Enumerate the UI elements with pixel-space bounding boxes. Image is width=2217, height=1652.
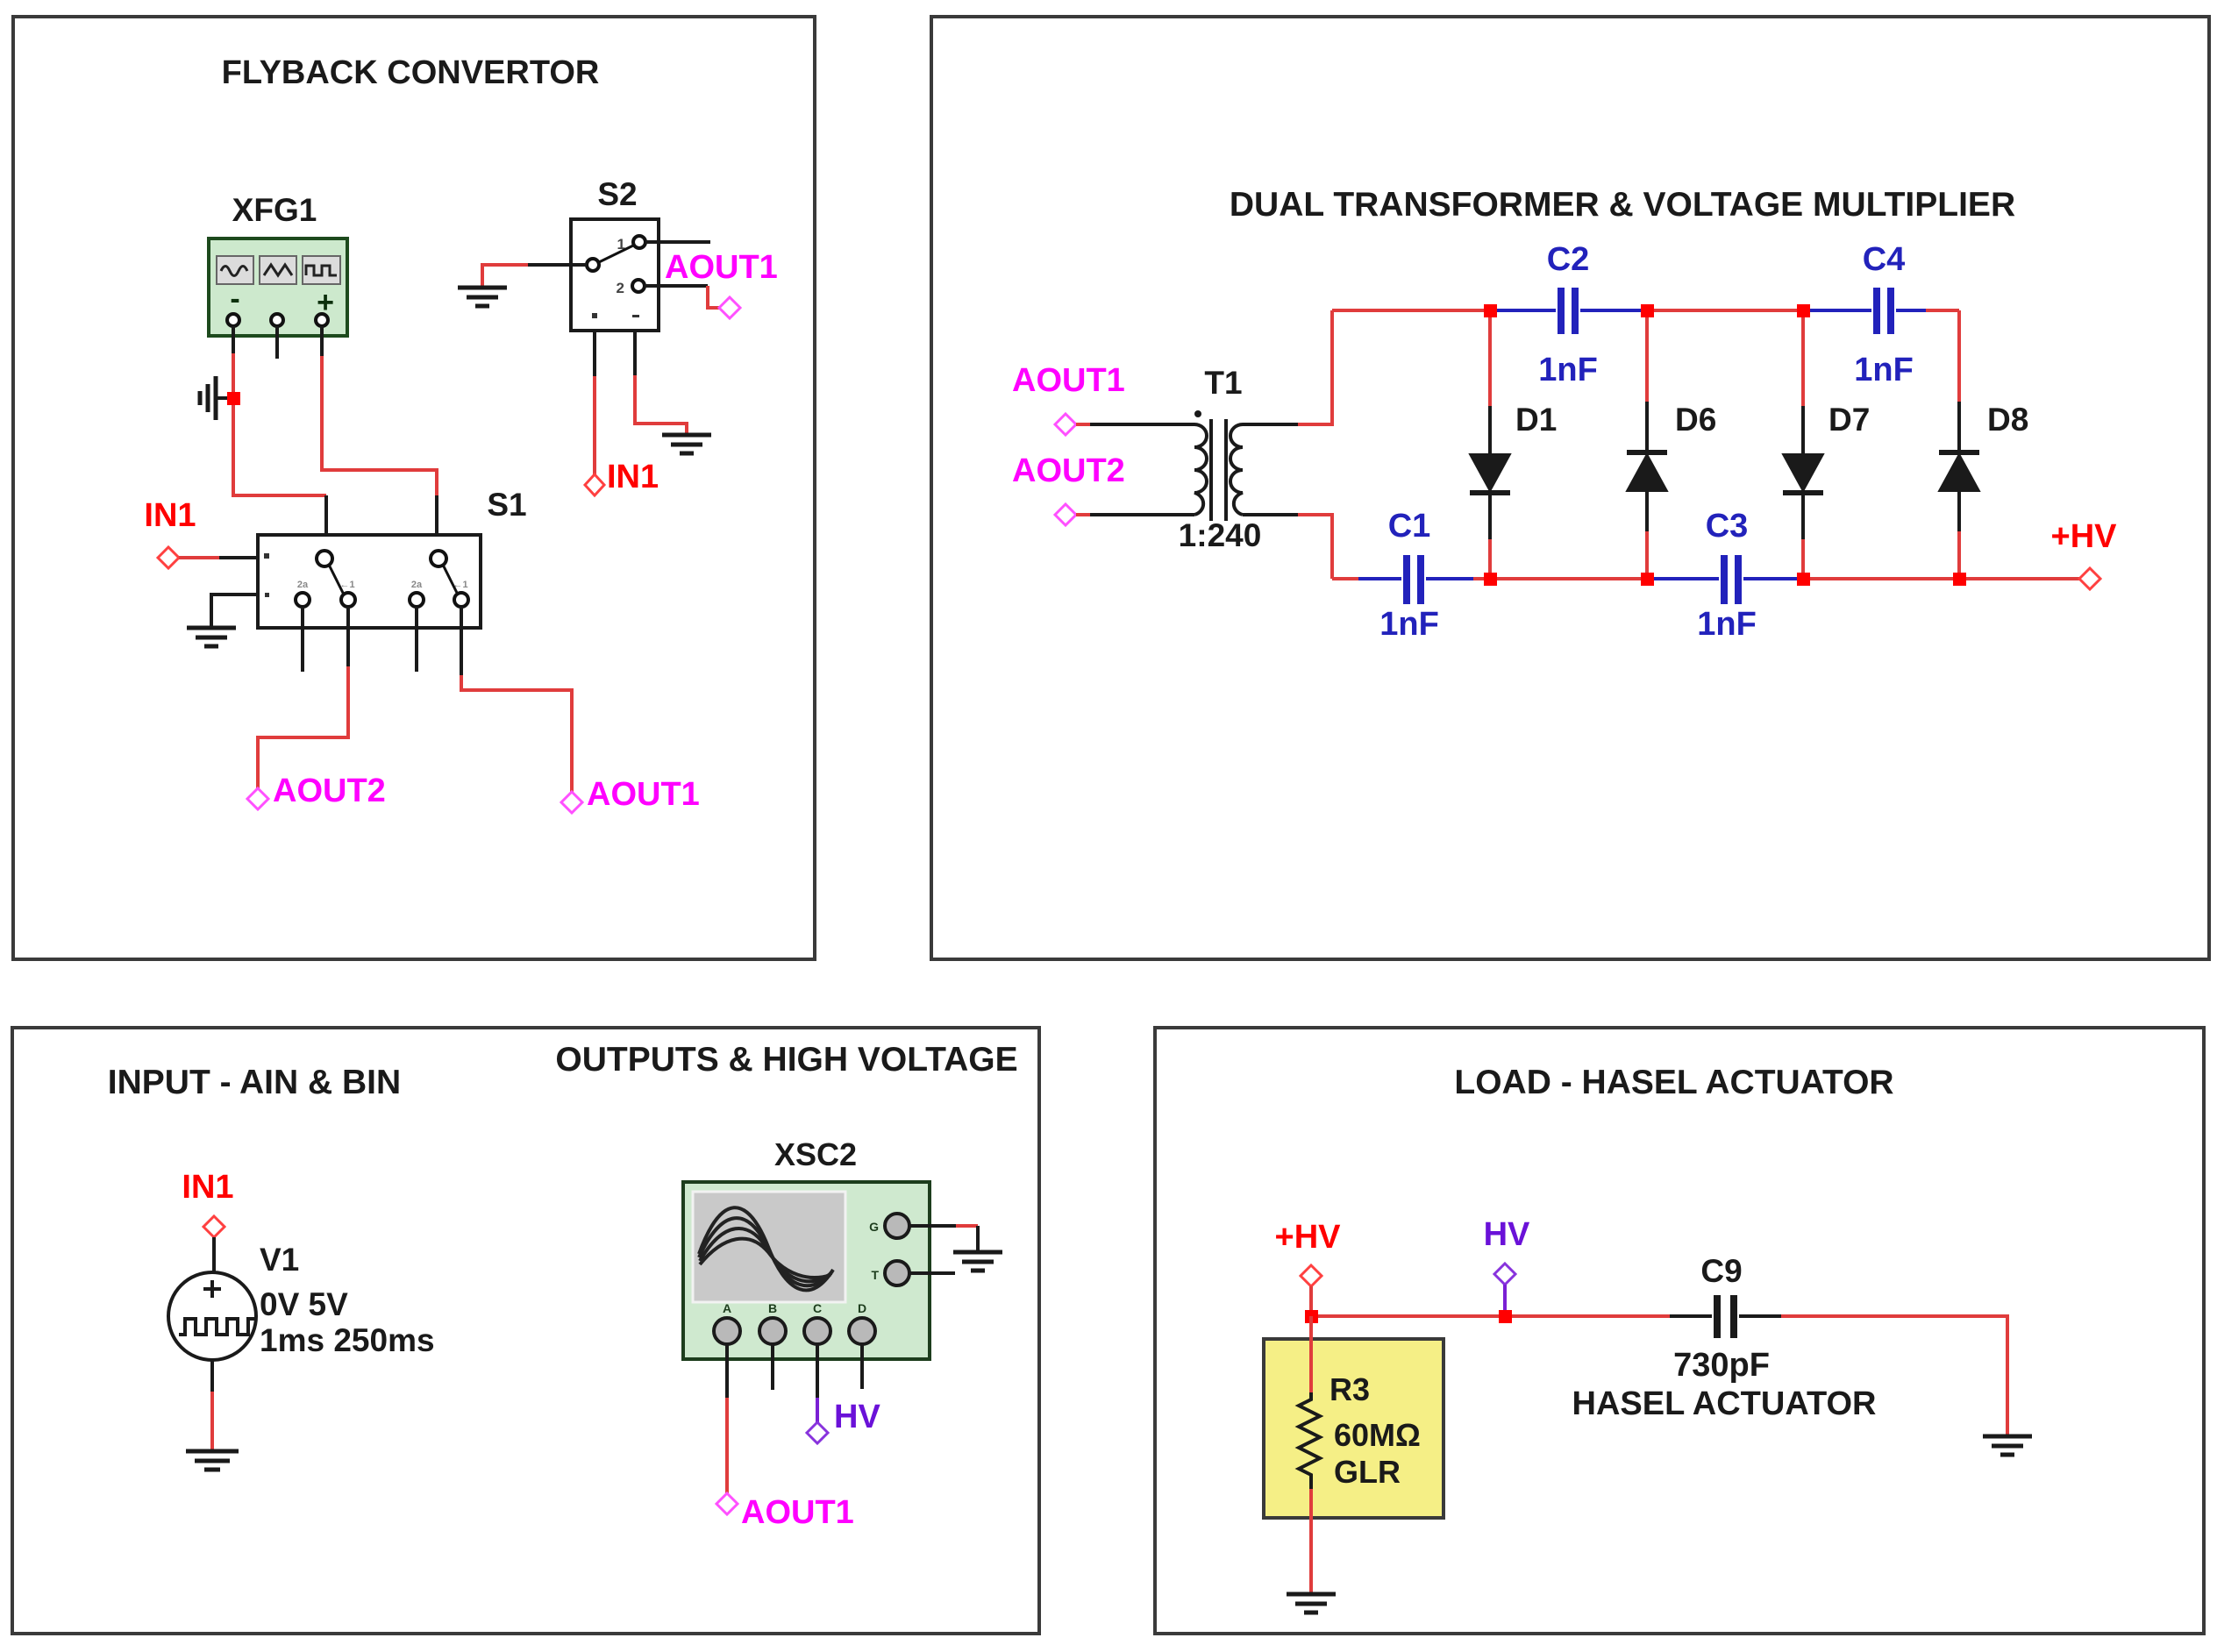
ground (sideways, at XFG1 minus wire) bbox=[200, 376, 233, 420]
diode D8 (cathode up) bbox=[1939, 310, 1979, 579]
panel border: DUAL TRANSFORMER & VOLTAGE MULTIPLIER bbox=[931, 17, 2209, 959]
resistor R3 value 60M&#937; bbox=[1334, 1417, 1421, 1453]
svg-text:60MΩ: 60MΩ bbox=[1334, 1417, 1421, 1453]
node AOUT2 connector (transformer input) bbox=[1055, 504, 1076, 525]
capacitor C2 value 1nF bbox=[1538, 352, 1598, 388]
capacitor C9 value 730pF bbox=[1673, 1347, 1770, 1384]
svg-text:XSC2: XSC2 bbox=[774, 1136, 857, 1172]
junction top rail at D6 bbox=[1641, 304, 1654, 317]
node IN1 connector (S2) bbox=[585, 474, 604, 495]
node AOUT1 connector (top) bbox=[719, 297, 740, 318]
svg-text:AOUT1: AOUT1 bbox=[741, 1494, 854, 1531]
junction load rail at HV bbox=[1499, 1310, 1512, 1323]
wire down to S1 switch A common bbox=[324, 495, 328, 552]
node IN1 connector (S1) bbox=[158, 547, 179, 568]
GLR resistor box (yellow) bbox=[1264, 1339, 1444, 1518]
capacitor C4 label bbox=[1863, 241, 1906, 278]
svg-text:AOUT1: AOUT1 bbox=[1012, 362, 1125, 399]
capacitor C9 name HASEL ACTUATOR bbox=[1572, 1385, 1877, 1422]
wire bottom rail (red, D1 to D6) bbox=[1490, 577, 1647, 580]
svg-text:OUTPUTS & HIGH VOLTAGE: OUTPUTS & HIGH VOLTAGE bbox=[555, 1041, 1017, 1079]
capacitor C2 label bbox=[1547, 241, 1590, 278]
wire XSC2 G to ground (red) bbox=[956, 1224, 978, 1228]
panel border: LOAD - HASEL ACTUATOR bbox=[1155, 1028, 2204, 1634]
svg-text:HV: HV bbox=[834, 1399, 880, 1435]
svg-text:0V 5V: 0V 5V bbox=[260, 1286, 348, 1322]
ground (S2 common) bbox=[458, 288, 507, 306]
svg-text:730pF: 730pF bbox=[1673, 1347, 1770, 1384]
wire V1 bottom bbox=[210, 1360, 214, 1392]
svg-text:C2: C2 bbox=[1547, 241, 1590, 278]
svg-text:DUAL TRANSFORMER & VOLTAGE MUL: DUAL TRANSFORMER & VOLTAGE MULTIPLIER bbox=[1230, 186, 2015, 224]
ground (S1) bbox=[187, 628, 236, 646]
panel title: INPUT - AIN & BIN bbox=[108, 1064, 401, 1101]
svg-text:D: D bbox=[858, 1301, 866, 1315]
node AOUT2 connector bbox=[247, 788, 268, 809]
svg-text:C: C bbox=[813, 1301, 822, 1315]
svg-text:1nF: 1nF bbox=[1538, 352, 1598, 388]
wire S2 right bottom pin bbox=[633, 331, 637, 375]
wire S1 switch B throw down bbox=[460, 607, 463, 675]
wire S2 pin2 out bbox=[645, 284, 708, 288]
wire XSC2 G elbow down bbox=[976, 1226, 980, 1252]
svg-text:C1: C1 bbox=[1388, 508, 1431, 545]
wire down to S1 switch B common bbox=[435, 495, 438, 552]
switch S2 bbox=[571, 219, 659, 331]
junction bottom rail at D8 bbox=[1953, 573, 1966, 586]
svg-text:S2: S2 bbox=[597, 176, 637, 212]
transformer T1 label bbox=[1204, 365, 1242, 401]
wire S1 bottom stub 2 bbox=[415, 607, 418, 672]
oscilloscope XSC2 bbox=[683, 1182, 930, 1359]
wire S2 pin1 stub bbox=[645, 240, 710, 244]
resistor R3 bbox=[1299, 1392, 1320, 1489]
svg-text:INPUT - AIN & BIN: INPUT - AIN & BIN bbox=[108, 1064, 401, 1101]
wire XFG1 plus to S1 switch B (red) bbox=[322, 356, 437, 495]
switch S1 label bbox=[487, 487, 526, 523]
junction bottom rail at D7 bbox=[1797, 573, 1810, 586]
node HV connector (XSC2) bbox=[807, 1422, 828, 1443]
svg-text:A: A bbox=[723, 1301, 731, 1315]
wire XFG1 middle stub bbox=[275, 326, 279, 359]
V1 value 0V 5V bbox=[260, 1286, 348, 1322]
panel border: INPUT / OUTPUTS bbox=[12, 1028, 1039, 1634]
capacitor C3 value 1nF bbox=[1697, 606, 1757, 643]
wire XSC2 B stub bbox=[771, 1344, 774, 1390]
voltage source V1 label bbox=[260, 1242, 299, 1278]
wire top rail C4 to D8 corner (red) bbox=[1926, 309, 1959, 312]
wire S2 left bottom pin bbox=[593, 331, 596, 376]
ground (load right) bbox=[1983, 1436, 2032, 1455]
wire V1 to ground (red) bbox=[210, 1392, 214, 1449]
wire bottom rail to +HV (red) bbox=[1959, 577, 2079, 580]
wire IN1 to V1 bbox=[212, 1237, 216, 1273]
svg-text:1nF: 1nF bbox=[1854, 352, 1914, 388]
diode D7 label bbox=[1828, 402, 1870, 438]
wire AOUT2 to T1 primary bbox=[1090, 513, 1194, 516]
node +HV label (load) bbox=[1275, 1219, 1342, 1256]
wire XFG1 minus to S1 switch A (red) bbox=[233, 353, 326, 495]
wire to AOUT1 bottom (red) bbox=[461, 675, 572, 792]
wire load rail right (red) bbox=[1781, 1316, 2007, 1435]
wire XFG1 minus lead bbox=[232, 326, 235, 353]
wire to AOUT2 (red) bbox=[258, 666, 348, 788]
svg-text:1:240: 1:240 bbox=[1179, 517, 1262, 553]
svg-text:2a: 2a bbox=[411, 580, 423, 590]
panel border: FLYBACK CONVERTOR bbox=[13, 17, 815, 959]
wire T1 secondary bottom to rail (red) bbox=[1298, 515, 1332, 579]
diode D8 label bbox=[1987, 402, 2028, 438]
wire AOUT1 to T1 (red) bbox=[1076, 423, 1090, 426]
svg-text:FLYBACK CONVERTOR: FLYBACK CONVERTOR bbox=[222, 54, 600, 91]
diode D1 (cathode down) bbox=[1470, 310, 1510, 579]
wire XSC2 C to HV (purple) bbox=[816, 1398, 819, 1422]
wire XFG1 plus lead bbox=[320, 326, 324, 356]
wire IN1 to S1 bbox=[219, 556, 258, 559]
wire S2 common out bbox=[528, 263, 587, 267]
svg-text:LOAD - HASEL ACTUATOR: LOAD - HASEL ACTUATOR bbox=[1454, 1064, 1893, 1101]
voltage source V1 bbox=[168, 1272, 256, 1360]
wire XSC2 A to AOUT1 (red) bbox=[725, 1398, 729, 1493]
node IN1 label (S2) bbox=[607, 459, 659, 495]
capacitor C1 value 1nF bbox=[1379, 606, 1439, 643]
svg-text:1nF: 1nF bbox=[1697, 606, 1757, 643]
wire IN1 to S1 (red) bbox=[179, 556, 219, 559]
wire load rail left (red) bbox=[1311, 1314, 1670, 1318]
V1 value 1ms 250ms bbox=[260, 1322, 435, 1358]
wire resistor to ground (red) bbox=[1309, 1489, 1313, 1592]
ground (S2 right pin) bbox=[662, 435, 711, 453]
svg-text:T: T bbox=[871, 1268, 879, 1282]
wire rail into resistor (red) bbox=[1309, 1316, 1313, 1392]
svg-text:1nF: 1nF bbox=[1379, 606, 1439, 643]
capacitor C3 label bbox=[1706, 508, 1749, 545]
svg-text:HASEL ACTUATOR: HASEL ACTUATOR bbox=[1572, 1385, 1877, 1422]
wire S2 pin2 to AOUT1 (red) bbox=[708, 286, 719, 308]
panel title: OUTPUTS & HIGH VOLTAGE bbox=[555, 1041, 1017, 1079]
junction bottom rail at D1 bbox=[1484, 573, 1497, 586]
svg-text:IN1: IN1 bbox=[607, 459, 659, 495]
panel title: LOAD - HASEL ACTUATOR bbox=[1454, 1064, 1893, 1101]
wire S1 lower-left pin to ground bbox=[211, 595, 258, 628]
svg-text:B: B bbox=[768, 1301, 777, 1315]
svg-text:-: - bbox=[230, 282, 239, 316]
diode D7 (cathode down) bbox=[1783, 310, 1823, 579]
wire T1 secondary top to rail (red) bbox=[1298, 310, 1332, 424]
node AOUT1 connector (XSC2) bbox=[716, 1493, 738, 1514]
svg-text:HV: HV bbox=[1484, 1216, 1530, 1253]
wire T1 secondary top bbox=[1243, 423, 1298, 426]
wire S2 left bottom pin to IN1 (red) bbox=[593, 376, 596, 474]
svg-text:S1: S1 bbox=[487, 487, 526, 523]
ground (R3) bbox=[1287, 1594, 1336, 1613]
svg-text:D1: D1 bbox=[1515, 402, 1557, 438]
wire bottom rail (red, C1 to D1) bbox=[1473, 577, 1490, 580]
junction top rail at D7 bbox=[1797, 304, 1810, 317]
wire AOUT2 to T1 (red) bbox=[1076, 513, 1090, 516]
wire bottom rail leftmost (red) bbox=[1332, 577, 1358, 580]
capacitor C1 bbox=[1358, 555, 1473, 604]
svg-text:R3: R3 bbox=[1329, 1371, 1370, 1407]
svg-text:2: 2 bbox=[617, 280, 624, 296]
capacitor C2 bbox=[1490, 288, 1647, 334]
svg-text:XFG1: XFG1 bbox=[232, 192, 317, 228]
svg-text:AOUT2: AOUT2 bbox=[1012, 452, 1125, 489]
wire +HV down to rail (red) bbox=[1309, 1286, 1313, 1316]
diode D6 (cathode up) bbox=[1627, 310, 1667, 579]
wire XSC2 T stub bbox=[909, 1271, 955, 1275]
svg-text:AOUT2: AOUT2 bbox=[273, 773, 386, 809]
svg-text:←1: ←1 bbox=[453, 580, 467, 590]
diode D1 label bbox=[1515, 402, 1557, 438]
capacitor C1 label bbox=[1388, 508, 1431, 545]
junction top rail at D1 bbox=[1484, 304, 1497, 317]
node AOUT1 connector (transformer input) bbox=[1055, 414, 1076, 435]
node +HV connector bbox=[2079, 568, 2100, 589]
node AOUT2 label (transformer input) bbox=[1012, 452, 1125, 489]
capacitor C9 (HASEL actuator) bbox=[1670, 1295, 1781, 1338]
svg-text:G: G bbox=[869, 1220, 879, 1234]
node AOUT2 label bbox=[273, 773, 386, 809]
svg-text:C9: C9 bbox=[1700, 1253, 1742, 1289]
svg-text:D8: D8 bbox=[1987, 402, 2028, 438]
wire XSC2 C down bbox=[816, 1344, 819, 1398]
svg-text:AOUT1: AOUT1 bbox=[587, 776, 700, 813]
node IN1 label (V1) bbox=[182, 1169, 233, 1206]
junction load rail at +HV bbox=[1305, 1310, 1318, 1323]
node +HV connector (load) bbox=[1301, 1265, 1322, 1286]
function generator XFG1 label bbox=[232, 192, 317, 228]
wire T1 secondary bottom bbox=[1243, 513, 1298, 516]
panel title: DUAL TRANSFORMER & VOLTAGE MULTIPLIER bbox=[1230, 186, 2015, 224]
capacitor C4 value 1nF bbox=[1854, 352, 1914, 388]
switch S2 label bbox=[597, 176, 637, 212]
diode D6 label bbox=[1675, 402, 1716, 438]
node AOUT1 label (XSC2) bbox=[741, 1494, 854, 1531]
wire S1 switch A throw down bbox=[346, 607, 350, 666]
node HV label (load) bbox=[1484, 1216, 1530, 1253]
svg-text:+HV: +HV bbox=[2051, 518, 2118, 555]
panel title: FLYBACK CONVERTOR bbox=[222, 54, 600, 91]
wire S2 common to ground (red) bbox=[482, 265, 528, 288]
ground (V1) bbox=[186, 1451, 239, 1470]
node AOUT1 label (transformer input) bbox=[1012, 362, 1125, 399]
wire S1 bottom stub 1 bbox=[301, 607, 304, 672]
svg-text:V1: V1 bbox=[260, 1242, 299, 1278]
svg-text:C4: C4 bbox=[1863, 241, 1906, 278]
wire XSC2 D stub bbox=[860, 1344, 864, 1389]
oscilloscope XSC2 label bbox=[774, 1136, 857, 1172]
svg-text:IN1: IN1 bbox=[144, 497, 196, 534]
wire top rail middle (red) bbox=[1647, 309, 1803, 312]
node +HV label bbox=[2051, 518, 2118, 555]
node HV connector (load) bbox=[1494, 1264, 1515, 1285]
transformer ratio label 1:240 bbox=[1179, 517, 1262, 553]
wire bottom rail (red, D7 to D8) bbox=[1803, 577, 1959, 580]
node AOUT1 label (bottom) bbox=[587, 776, 700, 813]
svg-text:1ms 250ms: 1ms 250ms bbox=[260, 1322, 435, 1358]
svg-text:T1: T1 bbox=[1204, 365, 1242, 401]
wire top rail left (red) bbox=[1332, 309, 1490, 312]
function generator XFG1 bbox=[209, 239, 347, 336]
svg-text:D7: D7 bbox=[1828, 402, 1870, 438]
svg-text:AOUT1: AOUT1 bbox=[665, 249, 778, 286]
junction at ground on minus wire bbox=[227, 392, 240, 405]
capacitor C4 bbox=[1803, 288, 1926, 334]
svg-text:D6: D6 bbox=[1675, 402, 1716, 438]
node AOUT1 label (top) bbox=[665, 249, 778, 286]
wire AOUT1 to T1 primary bbox=[1090, 423, 1194, 426]
svg-text:IN1: IN1 bbox=[182, 1169, 233, 1206]
switch S1 bbox=[258, 535, 481, 628]
svg-text:←1: ←1 bbox=[339, 580, 354, 590]
wire XSC2 G terminal bbox=[909, 1224, 956, 1228]
resistor R3 label bbox=[1329, 1371, 1370, 1407]
ground (XSC2) bbox=[953, 1252, 1002, 1271]
wire HV down to rail (purple) bbox=[1503, 1285, 1507, 1310]
resistor R3 name GLR bbox=[1334, 1454, 1401, 1490]
wire XSC2 A down bbox=[725, 1344, 729, 1398]
junction bottom rail at D6 bbox=[1641, 573, 1654, 586]
svg-text:GLR: GLR bbox=[1334, 1454, 1401, 1490]
node IN1 connector (V1) bbox=[203, 1216, 225, 1237]
node HV label (XSC2) bbox=[834, 1399, 880, 1435]
wire S2 right bottom pin to ground (red) bbox=[635, 375, 687, 435]
capacitor C9 label bbox=[1700, 1253, 1742, 1289]
svg-text:+HV: +HV bbox=[1275, 1219, 1342, 1256]
node AOUT1 connector (bottom) bbox=[561, 792, 582, 813]
svg-text:C3: C3 bbox=[1706, 508, 1749, 545]
capacitor C3 bbox=[1647, 555, 1803, 604]
transformer T1 bbox=[1194, 410, 1243, 521]
svg-text:2a: 2a bbox=[297, 580, 309, 590]
node IN1 label (S1) bbox=[144, 497, 196, 534]
